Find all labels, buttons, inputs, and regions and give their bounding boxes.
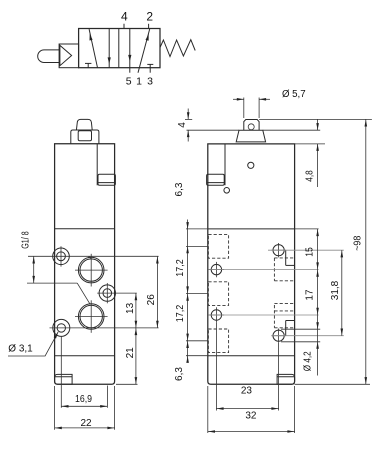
svg-text:26: 26 (146, 294, 157, 306)
svg-text:13: 13 (125, 302, 136, 314)
svg-text:31,8: 31,8 (330, 280, 341, 300)
svg-text:G1/ 8: G1/ 8 (20, 231, 31, 249)
svg-text:15: 15 (305, 247, 316, 257)
svg-text:4,8: 4,8 (305, 170, 316, 182)
svg-text:6,3: 6,3 (174, 182, 185, 196)
svg-text:22: 22 (80, 418, 92, 429)
svg-text:Ø 4,2: Ø 4,2 (302, 351, 313, 371)
svg-text:6,3: 6,3 (174, 367, 185, 381)
svg-text:16,9: 16,9 (75, 394, 92, 405)
svg-text:1: 1 (136, 75, 142, 87)
svg-text:5: 5 (126, 75, 132, 87)
svg-text:17,2: 17,2 (175, 259, 186, 277)
svg-text:32: 32 (245, 411, 257, 422)
svg-text:Ø 5,7: Ø 5,7 (282, 89, 306, 100)
svg-text:17,2: 17,2 (175, 304, 186, 322)
svg-text:17: 17 (305, 289, 316, 301)
svg-text:3: 3 (147, 75, 153, 87)
svg-text:Ø 3,1: Ø 3,1 (8, 344, 33, 355)
svg-text:2: 2 (146, 10, 153, 24)
svg-text:4: 4 (177, 122, 188, 128)
svg-text:~98: ~98 (353, 235, 364, 251)
svg-text:21: 21 (125, 347, 136, 359)
svg-text:23: 23 (241, 385, 253, 396)
svg-text:4: 4 (121, 10, 128, 24)
